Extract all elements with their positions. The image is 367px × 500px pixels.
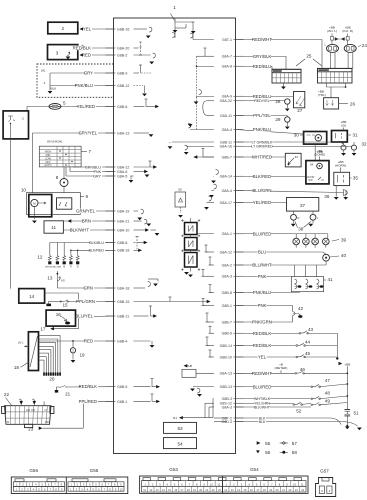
svg-text:GRN/YEL: GRN/YEL — [76, 209, 95, 214]
svg-text:GRY: GRY — [84, 71, 93, 76]
svg-text:BL/TAN: BL/TAN — [54, 266, 62, 269]
svg-text:20: 20 — [49, 377, 55, 382]
svg-text:35: 35 — [353, 176, 359, 181]
svg-text:[A]: [A] — [41, 69, 45, 73]
svg-text:OFF: OFF — [45, 160, 51, 164]
svg-text:YEL: YEL — [258, 355, 267, 360]
svg-text:40: 40 — [341, 253, 347, 258]
svg-text:(METER): (METER) — [275, 366, 288, 370]
svg-text:BRN: BRN — [82, 219, 91, 224]
svg-text:G8A-22: G8A-22 — [220, 99, 232, 103]
svg-text:26: 26 — [350, 101, 356, 106]
svg-text:G8A-9: G8A-9 — [222, 95, 232, 99]
svg-text:44: 44 — [305, 339, 311, 344]
svg-text:7: 7 — [89, 149, 92, 154]
svg-text:GRY/BLK: GRY/BLK — [253, 54, 272, 59]
svg-text:11: 11 — [51, 225, 56, 230]
svg-text:52: 52 — [296, 409, 302, 414]
svg-text:39: 39 — [341, 237, 347, 242]
svg-text:28: 28 — [275, 99, 281, 104]
svg-text:BLU/RED: BLU/RED — [253, 384, 272, 389]
svg-text:G8A-6: G8A-6 — [117, 170, 127, 174]
svg-text:G8B-16: G8B-16 — [117, 27, 129, 31]
svg-text:BLK: BLK — [51, 87, 58, 91]
svg-text:RED: RED — [84, 339, 93, 344]
svg-text:G8A-12: G8A-12 — [117, 165, 129, 169]
svg-text:YEL: YEL — [83, 27, 92, 32]
svg-text:BLK/WHT: BLK/WHT — [70, 228, 89, 233]
svg-text:G53: G53 — [169, 467, 178, 472]
svg-text:8: 8 — [56, 175, 59, 180]
svg-text:BLU/RED: BLU/RED — [253, 231, 272, 236]
svg-text:G8A-11: G8A-11 — [220, 114, 232, 118]
svg-text:55: 55 — [265, 441, 271, 446]
svg-text:1: 1 — [173, 5, 176, 10]
svg-text:RED: RED — [82, 53, 91, 58]
svg-text:G57: G57 — [320, 468, 329, 473]
svg-text:G8B-10: G8B-10 — [220, 355, 232, 359]
svg-text:LT: LT — [45, 408, 48, 412]
svg-text:GRY/YEL: GRY/YEL — [78, 131, 97, 136]
svg-text:RED/YEL: RED/YEL — [254, 99, 269, 103]
svg-text:32: 32 — [362, 142, 367, 147]
svg-text:GR: GR — [26, 408, 30, 412]
svg-text:56: 56 — [265, 450, 271, 455]
svg-text:24: 24 — [362, 43, 367, 48]
svg-text:33: 33 — [294, 155, 298, 159]
svg-text:RED/WHT: RED/WHT — [252, 37, 272, 42]
svg-text:27: 27 — [297, 108, 303, 113]
svg-text:G8A-4: G8A-4 — [222, 128, 232, 132]
svg-text:G8B-1: G8B-1 — [222, 304, 232, 308]
svg-text:PNK/BLU: PNK/BLU — [75, 83, 93, 88]
svg-text:29: 29 — [275, 117, 281, 122]
svg-text:PPL/RED: PPL/RED — [79, 399, 97, 404]
svg-text:G8A-13: G8A-13 — [117, 131, 129, 135]
svg-text:YEL/RED: YEL/RED — [77, 104, 95, 109]
svg-text:21: 21 — [65, 392, 71, 397]
svg-text:G8B-7: G8B-7 — [222, 155, 232, 159]
svg-text:M: M — [33, 202, 36, 206]
svg-text:19: 19 — [80, 353, 86, 358]
svg-text:37: 37 — [300, 203, 306, 208]
svg-text:41: 41 — [328, 277, 334, 282]
svg-text:3: 3 — [321, 489, 323, 493]
svg-text:BLK/RED: BLK/RED — [89, 249, 105, 253]
svg-text:G8B-2: G8B-2 — [117, 53, 127, 57]
svg-text:G8B-5: G8B-5 — [222, 332, 232, 336]
svg-text:47: 47 — [325, 378, 331, 383]
svg-text:10: 10 — [21, 188, 27, 193]
svg-text:51: 51 — [354, 411, 360, 416]
svg-text:RED/BLK: RED/BLK — [73, 46, 92, 51]
svg-text:+B: +B — [188, 364, 192, 368]
svg-text:G8A-12: G8A-12 — [220, 250, 232, 254]
svg-text:(INJ. R): (INJ. R) — [342, 29, 353, 33]
svg-text:BLU/WHT: BLU/WHT — [252, 263, 272, 268]
svg-text:2: 2 — [22, 117, 24, 121]
svg-text:G8A-18: G8A-18 — [117, 286, 129, 290]
svg-text:23: 23 — [28, 426, 34, 431]
svg-text:G8B-1: G8B-1 — [117, 400, 127, 404]
svg-text:BR: BR — [45, 420, 49, 424]
svg-text:G8A-2: G8A-2 — [222, 263, 232, 267]
svg-text:G56: G56 — [29, 468, 38, 473]
svg-text:G8B-5: G8B-5 — [117, 385, 127, 389]
svg-text:GRN: GRN — [83, 286, 93, 291]
svg-text:(DOME): (DOME) — [314, 152, 325, 156]
svg-text:PNK: PNK — [258, 303, 267, 308]
svg-text:53: 53 — [177, 426, 183, 431]
svg-text:BLK/BLU: BLK/BLU — [89, 241, 104, 245]
svg-text:RED/BLK: RED/BLK — [79, 384, 98, 389]
svg-text:B: B — [63, 265, 65, 269]
svg-text:G8B-8: G8B-8 — [117, 241, 127, 245]
svg-text:NO: NO — [61, 279, 65, 283]
svg-text:50: 50 — [178, 188, 182, 192]
svg-text:G8A-5: G8A-5 — [117, 174, 127, 178]
svg-text:4: 4 — [44, 81, 46, 85]
svg-text:G8B-9: G8B-9 — [117, 71, 127, 75]
svg-text:D: D — [77, 265, 79, 269]
svg-text:R: R — [298, 216, 300, 220]
svg-text:G8B-18: G8B-18 — [117, 249, 129, 253]
svg-text:2: 2 — [62, 26, 65, 31]
svg-text:9: 9 — [86, 194, 89, 199]
svg-text:54: 54 — [177, 441, 183, 446]
svg-text:17: 17 — [40, 327, 46, 332]
svg-text:G8B-7: G8B-7 — [222, 320, 232, 324]
svg-text:MID: MID — [46, 153, 51, 157]
svg-text:48: 48 — [325, 390, 331, 395]
svg-text:+BB: +BB — [344, 362, 350, 366]
svg-text:HIGH: HIGH — [45, 149, 52, 153]
svg-text:13: 13 — [47, 276, 53, 281]
svg-text:YEL/RED: YEL/RED — [253, 200, 271, 205]
svg-text:GRN/BLU: GRN/BLU — [85, 165, 101, 169]
svg-text:LT GRN/RED: LT GRN/RED — [251, 145, 273, 149]
svg-text:18: 18 — [14, 365, 20, 370]
svg-text:(IG): (IG) — [341, 123, 346, 127]
svg-text:31: 31 — [353, 133, 359, 138]
svg-text:G8A-3: G8A-3 — [222, 405, 232, 409]
svg-text:OR: OR — [31, 408, 35, 412]
svg-text:42: 42 — [298, 306, 304, 311]
svg-text:PPL/GRN: PPL/GRN — [76, 299, 95, 304]
svg-text:SW: SW — [308, 178, 313, 182]
svg-text:G8B-11: G8B-11 — [117, 314, 129, 318]
svg-text:1: 1 — [329, 489, 331, 493]
svg-text:(A) 1: (A) 1 — [18, 340, 24, 344]
svg-text:12: 12 — [37, 255, 43, 260]
svg-text:BLU/GRN: BLU/GRN — [252, 188, 271, 193]
svg-text:WHT/RED: WHT/RED — [252, 155, 272, 160]
svg-text:RED/WHT: RED/WHT — [252, 371, 272, 376]
svg-text:49: 49 — [325, 399, 331, 404]
svg-text:BLU: BLU — [258, 250, 266, 255]
svg-text:G8B-3: G8B-3 — [222, 397, 232, 401]
svg-text:G54: G54 — [250, 467, 259, 472]
svg-text:S: S — [72, 349, 74, 353]
svg-text:P: P — [70, 265, 72, 269]
svg-text:WHT/BLK: WHT/BLK — [254, 397, 271, 401]
svg-text:38: 38 — [298, 227, 304, 232]
svg-text:PNK: PNK — [258, 274, 267, 279]
svg-text:G8B-6: G8B-6 — [117, 105, 127, 109]
svg-text:G8B-15: G8B-15 — [117, 300, 129, 304]
svg-text:BLK/WHT: BLK/WHT — [254, 405, 271, 409]
svg-text:G8A-17: G8A-17 — [220, 201, 232, 205]
svg-text:G8A-21: G8A-21 — [117, 219, 129, 223]
svg-text:AUTO: AUTO — [44, 163, 51, 167]
svg-text:GRY: GRY — [93, 174, 101, 178]
svg-text:PNK/GRN: PNK/GRN — [252, 320, 272, 325]
svg-text:G8A-13: G8A-13 — [220, 372, 232, 376]
svg-text:(TRL): (TRL) — [318, 93, 326, 97]
svg-text:58: 58 — [292, 450, 298, 455]
svg-text:3: 3 — [56, 51, 59, 56]
svg-text:LOW: LOW — [45, 156, 51, 160]
svg-text:G8B-8: G8B-8 — [222, 291, 232, 295]
svg-text:PNK: PNK — [94, 170, 102, 174]
svg-text:G8B-13: G8B-13 — [220, 385, 232, 389]
svg-text:5: 5 — [63, 101, 66, 106]
svg-text:G8A-19: G8A-19 — [117, 209, 129, 213]
svg-text:N1: N1 — [173, 416, 177, 420]
svg-text:43: 43 — [308, 327, 314, 332]
svg-text:ON (HIGH): ON (HIGH) — [47, 139, 62, 143]
svg-text:BLK: BLK — [259, 420, 266, 424]
svg-text:RED/BLU: RED/BLU — [253, 94, 272, 99]
svg-text:G8A-16: G8A-16 — [220, 145, 232, 149]
svg-text:PNK/BLU: PNK/BLU — [253, 127, 271, 132]
svg-text:G8A-10: G8A-10 — [117, 228, 129, 232]
svg-text:25: 25 — [306, 54, 312, 59]
svg-text:G8T-1: G8T-1 — [222, 38, 232, 42]
svg-text:(INJ. L): (INJ. L) — [327, 29, 337, 33]
svg-text:46: 46 — [300, 367, 306, 372]
svg-text:57: 57 — [292, 441, 298, 446]
svg-text:34: 34 — [310, 163, 314, 167]
svg-text:G8A-4: G8A-4 — [222, 189, 232, 193]
svg-text:PNK/BLU: PNK/BLU — [253, 290, 271, 295]
svg-text:BLK/RED: BLK/RED — [253, 174, 271, 179]
svg-text:45: 45 — [305, 351, 311, 356]
svg-text:G8B-12: G8B-12 — [117, 84, 129, 88]
svg-text:PPL/YEL: PPL/YEL — [253, 113, 271, 118]
svg-text:G8B-4: G8B-4 — [117, 339, 127, 343]
svg-text:G8A-14: G8A-14 — [220, 175, 232, 179]
svg-text:G8A-3: G8A-3 — [222, 275, 232, 279]
svg-text:RED/BLK: RED/BLK — [253, 343, 272, 348]
svg-text:14: 14 — [29, 294, 35, 299]
svg-text:G8A-1: G8A-1 — [222, 232, 232, 236]
svg-text:22: 22 — [4, 392, 10, 397]
svg-text:G8B-14: G8B-14 — [220, 344, 232, 348]
svg-text:(HORN): (HORN) — [335, 163, 346, 167]
svg-text:36: 36 — [324, 194, 330, 199]
svg-text:RED/BLK: RED/BLK — [253, 331, 272, 336]
svg-text:G8A-8: G8A-8 — [222, 65, 232, 69]
svg-text:G55: G55 — [90, 468, 99, 473]
svg-text:G8A-7: G8A-7 — [222, 55, 232, 59]
svg-text:G8A-20: G8A-20 — [117, 46, 129, 50]
svg-text:RED/BLU: RED/BLU — [253, 64, 272, 69]
svg-text:15: 15 — [62, 302, 68, 307]
svg-text:G8D-3: G8D-3 — [221, 420, 232, 424]
svg-text:BLU/YEL: BLU/YEL — [75, 314, 93, 319]
